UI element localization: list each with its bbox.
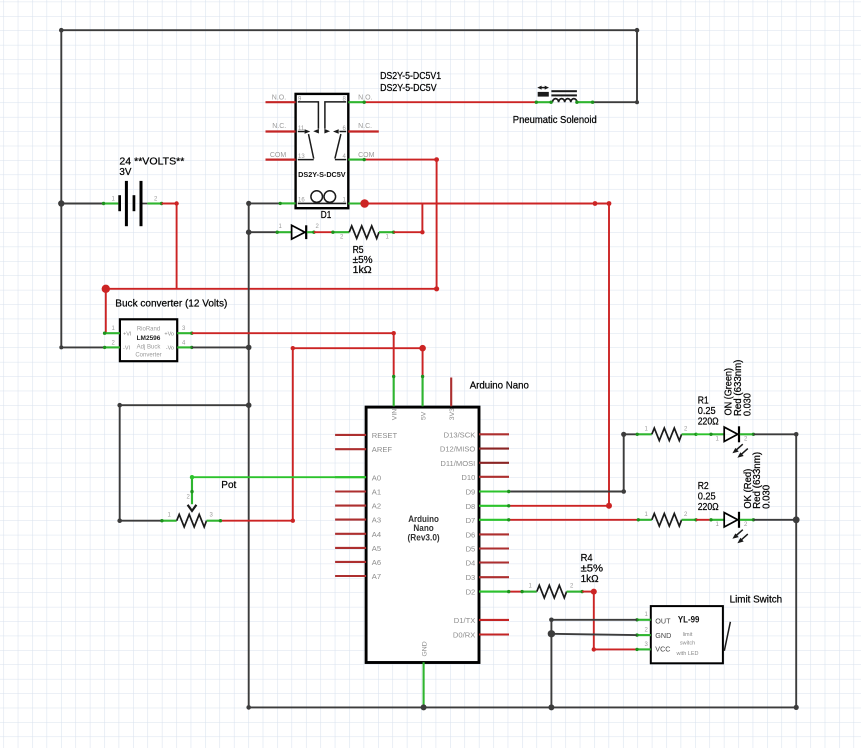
svg-text:A7: A7	[372, 572, 381, 581]
Arduino top pin 3V3 stub dangling	[450, 378, 452, 407]
svg-text:DS2Y-5-DC5V: DS2Y-5-DC5V	[380, 83, 437, 94]
wire R5 to coil net	[394, 204, 423, 233]
svg-text:Limit Switch: Limit Switch	[730, 595, 783, 606]
svg-text:VIN: VIN	[391, 409, 398, 420]
wire D2 to R4	[509, 591, 522, 593]
svg-text:D5: D5	[466, 545, 476, 554]
svg-text:Arduino Nano: Arduino Nano	[470, 381, 530, 392]
wire D9 to R1	[509, 434, 638, 491]
svg-text:A3: A3	[372, 516, 381, 525]
svg-text:R4: R4	[581, 553, 593, 564]
svg-text:+VI: +VI	[123, 331, 132, 337]
svg-text:D1: D1	[321, 210, 332, 221]
diode D1 wire from gnd rail	[249, 231, 278, 233]
Arduino left pin A1	[335, 490, 366, 492]
svg-text:3V: 3V	[119, 167, 131, 178]
svg-text:1kΩ: 1kΩ	[353, 265, 372, 276]
node coil net junction	[360, 199, 369, 208]
svg-text:-Vo: -Vo	[166, 346, 174, 352]
wire outer loop left (battery minus branch)	[61, 30, 104, 347]
Arduino left pin A4	[335, 533, 366, 535]
relay K1 body	[296, 94, 349, 208]
svg-text:(Rev3.0): (Rev3.0)	[408, 532, 440, 542]
Arduino right pin D7 (connected)	[479, 519, 509, 521]
limit switch YL-99 body	[651, 606, 723, 663]
relay K1 contact arrowheads	[305, 129, 339, 134]
resistor R4	[520, 584, 584, 598]
wire GND diagonal	[551, 634, 637, 635]
relay pin 6 stub dangling	[348, 130, 379, 132]
LED1 ON green	[709, 426, 755, 457]
svg-text:Pot: Pot	[221, 480, 236, 491]
svg-text:AREF: AREF	[372, 445, 393, 454]
svg-text:N.C.: N.C.	[358, 123, 372, 130]
Arduino right pin D4	[479, 561, 509, 563]
relay K1 left pin 9 N.O.	[266, 101, 296, 103]
svg-text:24 **VOLTS**: 24 **VOLTS**	[119, 157, 184, 168]
Arduino right pin D12/MISO	[479, 448, 509, 450]
svg-text:0.030: 0.030	[761, 485, 772, 509]
Arduino right pin D8 (connected)	[479, 505, 509, 507]
svg-text:RioRand: RioRand	[137, 327, 160, 333]
Arduino right pin D1/TX	[479, 619, 509, 621]
Arduino left pin A0 (connected)	[335, 476, 366, 478]
svg-text:COM: COM	[270, 152, 287, 159]
node power rail junctions	[102, 285, 110, 293]
Arduino left pin RESET	[335, 434, 366, 436]
relay pin 8 stub + wire to solenoid	[348, 101, 364, 103]
relay pin 1 stub + coil net wire to D8	[348, 202, 364, 204]
svg-text:YL-99: YL-99	[678, 615, 700, 626]
wire LED1 to right rail	[753, 434, 796, 707]
wire R4 to VCC of limit switch	[582, 592, 637, 650]
svg-text:Buck converter (12 Volts): Buck converter (12 Volts)	[115, 298, 227, 309]
Arduino right pin D5	[479, 547, 509, 549]
resistor R2	[637, 512, 698, 526]
relay pin 4 stub + wire COM down to power rail	[348, 159, 364, 161]
svg-text:D7: D7	[466, 516, 476, 525]
Arduino right pin D6	[479, 533, 509, 535]
svg-text:D12/MISO: D12/MISO	[440, 445, 476, 454]
svg-text:D8: D8	[466, 502, 476, 511]
limit switch pin stubs	[637, 619, 651, 621]
svg-text:5V: 5V	[420, 411, 427, 420]
Arduino left pin A3	[335, 519, 366, 521]
svg-text:VCC: VCC	[655, 645, 670, 654]
Arduino right pin D0/RX	[479, 633, 509, 635]
svg-text:Converter: Converter	[135, 352, 161, 358]
relay K1 left pin 11 N.C.	[266, 130, 296, 132]
svg-text:A6: A6	[372, 558, 381, 567]
svg-text:220Ω: 220Ω	[698, 502, 719, 513]
relay K1 coil	[298, 202, 346, 204]
svg-text:1kΩ: 1kΩ	[581, 574, 599, 585]
wire diode to R5	[314, 231, 333, 233]
node outer loop corners	[59, 28, 64, 33]
svg-text:D6: D6	[466, 530, 476, 539]
pneumatic solenoid L1	[535, 86, 595, 104]
svg-text:A5: A5	[372, 544, 381, 553]
svg-text:limit: limit	[683, 632, 693, 638]
svg-text:GND: GND	[421, 641, 428, 656]
svg-text:220Ω: 220Ω	[698, 416, 719, 427]
wire pot wiper to A0	[192, 476, 366, 478]
Arduino left pin AREF	[335, 448, 366, 450]
wire outer loop right (to solenoid)	[593, 30, 637, 102]
svg-text:A0: A0	[372, 473, 381, 482]
Arduino right pin D3	[479, 576, 509, 578]
svg-text:Adj Buck: Adj Buck	[137, 345, 162, 351]
svg-text:3V3: 3V3	[449, 408, 456, 420]
battery BAT1 symbol	[61, 181, 163, 226]
svg-text:COM: COM	[358, 152, 375, 159]
svg-text:A2: A2	[372, 502, 381, 511]
relay K1 internal contacts	[298, 102, 346, 160]
wire 5V net horizontal	[293, 348, 423, 376]
wire buck -Vo to gnd rail	[192, 346, 249, 348]
svg-text:switch: switch	[680, 641, 695, 647]
Arduino left pin A6	[335, 561, 366, 563]
node D8 junction	[606, 503, 612, 509]
svg-text:+Vo: +Vo	[164, 331, 174, 337]
wire battery plus to power rail	[162, 204, 177, 289]
svg-text:LM2596: LM2596	[137, 335, 161, 342]
wire D8 to coil net	[509, 505, 609, 507]
Arduino left pin A7	[335, 575, 366, 577]
wire OUT to TX-net vertical	[551, 619, 637, 621]
LED2 OK red	[709, 512, 755, 543]
buck converter pin stubs	[105, 332, 120, 334]
svg-text:-VI: -VI	[123, 346, 131, 352]
wire limit switch vertical to bottom rail	[550, 620, 552, 708]
svg-text:N.C.: N.C.	[272, 123, 286, 130]
wire power rail down to buck +VI	[105, 289, 107, 333]
svg-text:N.O.: N.O.	[358, 95, 372, 102]
svg-text:A1: A1	[372, 488, 381, 497]
svg-text:R2: R2	[698, 481, 709, 492]
wire R2 to LED2	[696, 519, 711, 521]
svg-text:D1/TX: D1/TX	[454, 616, 476, 625]
svg-text:D2: D2	[466, 588, 476, 597]
svg-text:D11/MOSI: D11/MOSI	[440, 459, 475, 468]
resistor R1	[636, 427, 698, 441]
Arduino top pin 5V stub	[422, 377, 424, 407]
buck converter U1 body	[120, 319, 177, 361]
Arduino right pin D13/SCK	[479, 433, 509, 435]
svg-text:OUT: OUT	[655, 616, 671, 625]
svg-text:with LED: with LED	[675, 651, 698, 657]
svg-text:DS2Y-S-DC5V: DS2Y-S-DC5V	[298, 172, 346, 179]
svg-text:DS2Y-5-DC5V1: DS2Y-5-DC5V1	[380, 71, 441, 82]
svg-text:A4: A4	[372, 530, 381, 539]
diode D1	[276, 224, 320, 239]
wire D7 to R2	[509, 519, 639, 521]
relay K1 left pin 13 COM	[266, 159, 296, 161]
Arduino right pin D11/MOSI	[479, 462, 509, 464]
gnd rail vertical	[248, 203, 250, 707]
wire LED2 to right rail	[753, 519, 795, 521]
Arduino top pin VIN stub	[393, 377, 395, 407]
svg-text:0.030: 0.030	[742, 393, 753, 416]
svg-text:D13/SCK: D13/SCK	[444, 430, 476, 439]
Arduino right pin D9 (connected)	[479, 490, 509, 492]
svg-text:N.O.: N.O.	[272, 95, 286, 102]
svg-text:D0/RX: D0/RX	[453, 631, 475, 640]
limit switch lever	[724, 622, 730, 651]
svg-text:0.25: 0.25	[698, 406, 716, 417]
wire outer loop top	[61, 30, 637, 347]
Arduino right pin D10	[479, 476, 509, 478]
wire buck +Vo to VIN	[192, 333, 394, 376]
relay pin 16 stub + wire to gnd rail	[280, 202, 295, 204]
resistor R5	[331, 226, 395, 240]
svg-text:RESET: RESET	[372, 431, 398, 440]
svg-text:GND: GND	[655, 631, 671, 640]
potentiometer R3	[160, 477, 222, 527]
wire bottom gnd rail	[249, 706, 797, 708]
svg-text:Pneumatic Solenoid: Pneumatic Solenoid	[513, 115, 597, 126]
Arduino left pin A2	[335, 505, 366, 507]
svg-text:D10: D10	[461, 473, 475, 482]
svg-text:Nano: Nano	[413, 523, 434, 533]
wire +24V power rail	[106, 288, 437, 290]
svg-text:R1: R1	[698, 396, 709, 407]
svg-text:D4: D4	[466, 559, 476, 568]
svg-text:D9: D9	[466, 488, 476, 497]
Arduino right pin D2 (connected)	[479, 591, 509, 593]
wire pot branch from gnd rail	[120, 405, 249, 521]
Arduino bottom pin GND stub	[423, 662, 425, 707]
svg-text:D3: D3	[466, 573, 476, 582]
wire R1 to LED1	[696, 433, 711, 435]
wire 5V down to pot pin3	[220, 348, 292, 521]
Arduino left pin A5	[335, 547, 366, 549]
Arduino U2 body	[366, 407, 479, 662]
svg-text:±5%: ±5%	[581, 564, 604, 575]
